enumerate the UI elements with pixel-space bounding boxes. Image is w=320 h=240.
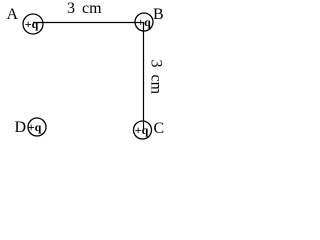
charge circle C [134, 121, 152, 139]
wire A-B [33, 22, 144, 24]
svg-text:3: 3 [148, 60, 165, 68]
charge circle D [28, 118, 46, 136]
svg-text:+q: +q [137, 15, 151, 29]
svg-text:+q: +q [25, 17, 39, 31]
svg-text:+q: +q [135, 123, 149, 137]
charge circle A [23, 14, 43, 34]
charge circle B [135, 13, 153, 31]
wire B-C [143, 23, 145, 131]
svg-text:D: D [15, 119, 27, 136]
svg-text:A: A [7, 6, 19, 23]
svg-text:B: B [153, 6, 164, 23]
svg-text:+q: +q [28, 120, 42, 134]
svg-text:C: C [154, 120, 165, 137]
svg-text:cm: cm [82, 0, 102, 17]
svg-text:cm: cm [148, 75, 165, 95]
svg-text:3: 3 [67, 0, 75, 17]
